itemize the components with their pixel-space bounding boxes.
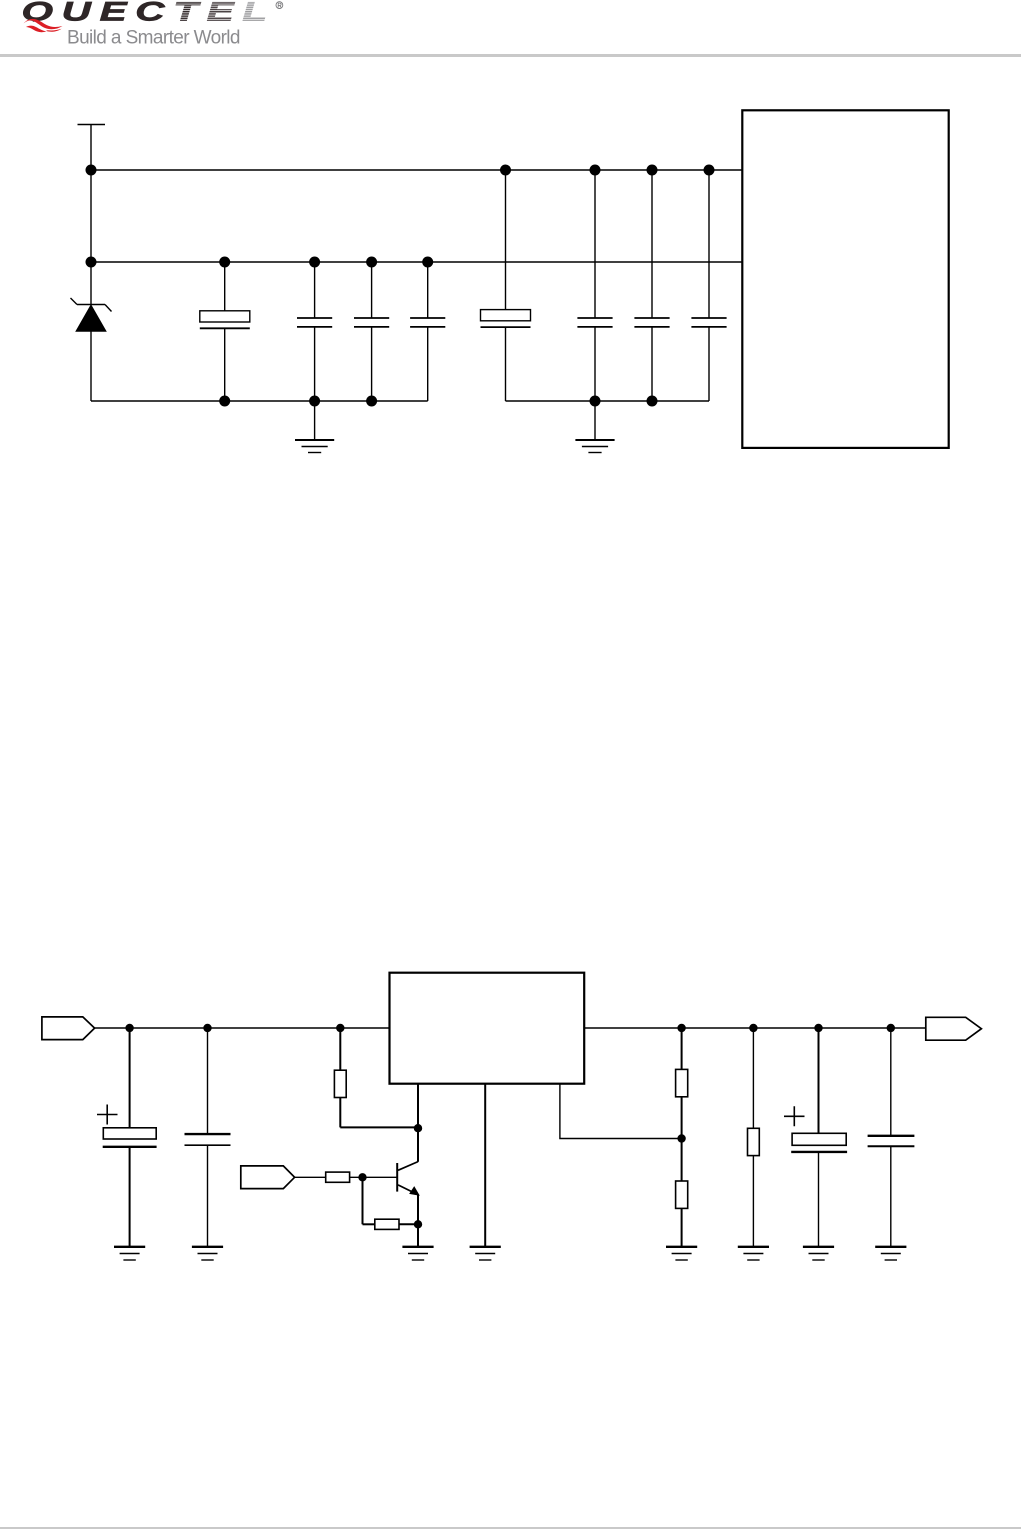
ground Q1 (402, 1247, 433, 1260)
resistor R5 (676, 1181, 688, 1247)
wire input rail (95, 1027, 389, 1029)
capacitor C2 (297, 262, 332, 401)
junction bottom rail / C3 (366, 396, 377, 407)
junction output rail / C11 (814, 1024, 822, 1032)
module U1 (742, 110, 948, 448)
wire to R3 (363, 1223, 375, 1225)
capacitor C10 (185, 1028, 231, 1247)
junction output rail / C12 (887, 1024, 895, 1032)
wire U2 ground pin (484, 1084, 486, 1247)
wire bottom rail left (91, 400, 428, 402)
wire base (350, 1176, 397, 1178)
junction bottom rail / ground left (309, 396, 320, 407)
wordmark QUECTEL (21, 0, 267, 27)
capacitor C8 (691, 170, 726, 401)
zener diode D1 (71, 298, 112, 401)
junction bottom rail / C7 (647, 396, 658, 407)
ground C9 (114, 1247, 145, 1260)
junction top rail / C8 (704, 165, 715, 176)
junction second rail / C4 (422, 257, 433, 268)
ground right (575, 401, 614, 453)
transistor Q1 (397, 1162, 418, 1225)
resistor R3 (375, 1219, 399, 1229)
wire collector (417, 1084, 419, 1162)
ground R5 (666, 1247, 697, 1260)
ground R6 (738, 1247, 769, 1260)
junction output rail / R6 (749, 1024, 757, 1032)
junction bottom rail / C1 (219, 396, 230, 407)
node base of Q1 (358, 1173, 366, 1181)
wire power stem (90, 170, 92, 305)
node feedback divider tap (677, 1134, 685, 1142)
node collector of Q1 (414, 1124, 422, 1132)
footer rule (0, 1527, 1021, 1530)
capacitor C11 (electrolytic +) (784, 1028, 847, 1247)
resistor R4 (676, 1028, 688, 1181)
capacitor C7 (634, 170, 669, 401)
junction second rail / C3 (366, 257, 377, 268)
junction top rail / C5 (500, 165, 511, 176)
wire bottom rail right (506, 400, 710, 402)
junction second rail / C2 (309, 257, 320, 268)
wire top rail (91, 169, 742, 171)
wire second rail (91, 261, 742, 263)
wire R3 to emitter (399, 1223, 418, 1225)
resistor R2 (326, 1172, 350, 1182)
wire base node down (362, 1177, 364, 1224)
junction input rail / C10 (203, 1024, 211, 1032)
white patch under Q (13, 22, 61, 35)
junction top rail / C6 (590, 165, 601, 176)
junction input rail / C9 (125, 1024, 133, 1032)
red swoosh (24, 19, 63, 29)
junction input rail / R1 (336, 1024, 344, 1032)
ground U2 (470, 1247, 501, 1260)
input flag EN (241, 1166, 295, 1189)
capacitor C12 (868, 1028, 915, 1247)
Quectel logo (0, 0, 300, 55)
registered mark (276, 2, 283, 9)
resistor R6 (748, 1028, 760, 1247)
junction top rail / C7 (647, 165, 658, 176)
LDO U2 (390, 973, 585, 1084)
capacitor C5 (tank) (481, 170, 531, 401)
ground C10 (192, 1247, 223, 1260)
wire to base resistor (295, 1176, 326, 1178)
junction top rail / power stem (86, 165, 97, 176)
output flag VOUT (926, 1017, 982, 1040)
ground C11 (803, 1247, 834, 1260)
ground left (295, 401, 334, 453)
junction output rail / R4 divider (677, 1024, 685, 1032)
wire emitter down (417, 1224, 419, 1247)
ground C12 (875, 1247, 906, 1260)
capacitor C3 (354, 262, 389, 401)
junction bottom rail / ground right (590, 396, 601, 407)
node emitter of Q1 (414, 1220, 422, 1228)
wire feedback (560, 1084, 682, 1139)
capacitor C4 (410, 262, 445, 401)
capacitor C6 (577, 170, 612, 401)
junction second rail / C1 (219, 257, 230, 268)
resistor R1 (334, 1028, 418, 1127)
wire output rail (585, 1027, 926, 1029)
junction second rail / power stem (86, 257, 97, 268)
capacitor C1 (tank) (200, 262, 250, 401)
header rule (0, 54, 1021, 57)
capacitor C9 (electrolytic +) (97, 1028, 157, 1247)
input flag VIN (42, 1017, 95, 1040)
power symbol VBAT (78, 125, 106, 171)
